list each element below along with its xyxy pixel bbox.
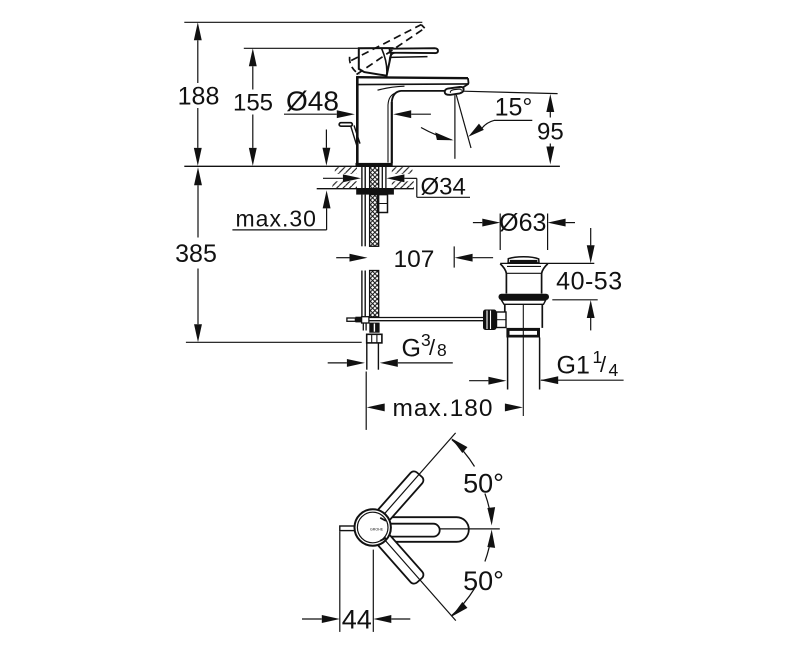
svg-text:50°: 50°	[463, 468, 504, 498]
dimension 107	[336, 246, 493, 273]
svg-text:50°: 50°	[463, 566, 504, 596]
rod knob on drain	[483, 310, 506, 331]
handle top view (right, outer)	[378, 517, 469, 542]
handle top view (inner face)	[379, 524, 440, 537]
dimension 95	[463, 91, 564, 164]
faucet body column	[356, 77, 468, 163]
dimension 44	[302, 531, 410, 634]
construction line down	[385, 541, 456, 621]
lever rotated down 50	[376, 532, 426, 585]
svg-text:4: 4	[609, 360, 619, 380]
extension line lever top	[244, 47, 358, 49]
aerator pod	[445, 87, 464, 95]
svg-text:/: /	[600, 352, 607, 377]
mounting nut	[356, 189, 394, 195]
svg-text:385: 385	[175, 240, 217, 268]
svg-text:Ø34: Ø34	[421, 173, 466, 200]
svg-text:/: /	[429, 335, 436, 360]
deck top line	[184, 165, 560, 167]
svg-text:155: 155	[233, 90, 273, 117]
svg-text:max.180: max.180	[393, 395, 494, 422]
deck hatching	[332, 167, 414, 188]
drain rim reference line	[500, 262, 594, 264]
dimension max.30	[232, 130, 330, 232]
dimension Ø48	[284, 86, 431, 119]
svg-text:95: 95	[537, 119, 564, 146]
dimension G1 1/4	[469, 347, 623, 385]
dimension 188	[178, 22, 220, 166]
faucet base plate	[356, 163, 393, 166]
drain seal flange	[499, 294, 550, 300]
svg-text:44: 44	[342, 604, 372, 634]
swing arc upper	[451, 438, 504, 525]
lever rotated up 50	[376, 470, 426, 523]
svg-text:Ø48: Ø48	[286, 86, 339, 117]
fixing stud	[378, 195, 388, 213]
raised lever dashed	[350, 25, 425, 75]
centerline right	[440, 528, 500, 530]
dimension max.180	[366, 372, 523, 430]
svg-text:40-53: 40-53	[556, 268, 622, 296]
svg-text:107: 107	[394, 246, 435, 273]
junction ticks	[380, 518, 386, 521]
pop-up rod knob (side view)	[339, 123, 360, 147]
dimension 385	[175, 167, 217, 342]
deck bottom line	[317, 188, 414, 190]
hose end fitting	[369, 323, 379, 333]
handle lever blade	[390, 48, 439, 57]
svg-text:max.30: max.30	[236, 206, 317, 232]
svg-text:G1: G1	[557, 352, 590, 380]
drain bottom ring	[506, 328, 540, 338]
svg-text:G: G	[402, 335, 421, 363]
rod stub below coupling	[363, 323, 366, 331]
pop-up rod vertical	[362, 195, 365, 317]
dimension G3/8	[328, 330, 453, 367]
body circle top view	[355, 509, 391, 545]
svg-text:15°: 15°	[495, 93, 533, 121]
svg-text:Ø63: Ø63	[499, 209, 546, 237]
drain upper cup	[500, 264, 548, 294]
svg-text:188: 188	[178, 83, 220, 111]
dimension 155	[233, 48, 273, 166]
hose thread tube	[367, 343, 379, 370]
drain flange underside	[501, 300, 546, 304]
supply hose braided	[370, 195, 379, 317]
dimension Ø34	[323, 173, 470, 200]
svg-text:GROHE: GROHE	[370, 528, 384, 532]
swing arc lower	[451, 530, 504, 617]
supply shank between deck	[362, 166, 386, 194]
pin left	[340, 526, 356, 531]
hose nut G3/8	[367, 334, 382, 343]
drain tailpipe	[508, 305, 540, 416]
dimension 15 degrees	[421, 93, 532, 159]
pull rod horizontal	[347, 317, 483, 323]
handle knuckle	[359, 48, 396, 76]
svg-text:8: 8	[437, 340, 447, 360]
dimension 40-53	[552, 228, 622, 330]
reference line 385 bottom	[186, 341, 362, 343]
drain body	[505, 304, 543, 328]
dimension Ø63	[473, 209, 575, 250]
extension line top (raised lever height)	[184, 21, 422, 23]
drain plug cap	[508, 257, 539, 263]
construction line up	[384, 433, 456, 514]
